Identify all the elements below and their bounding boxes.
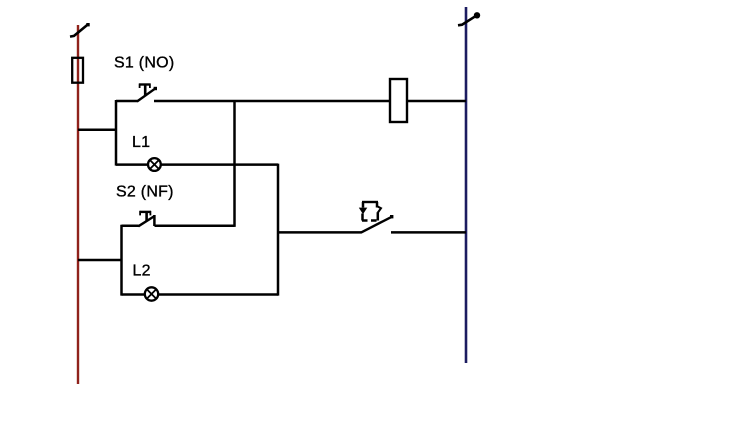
- svg-text:S1 (NO): S1 (NO): [114, 54, 174, 71]
- svg-text:L2: L2: [133, 263, 151, 280]
- svg-text:S2 (NF): S2 (NF): [116, 183, 174, 200]
- svg-text:L1: L1: [132, 134, 150, 151]
